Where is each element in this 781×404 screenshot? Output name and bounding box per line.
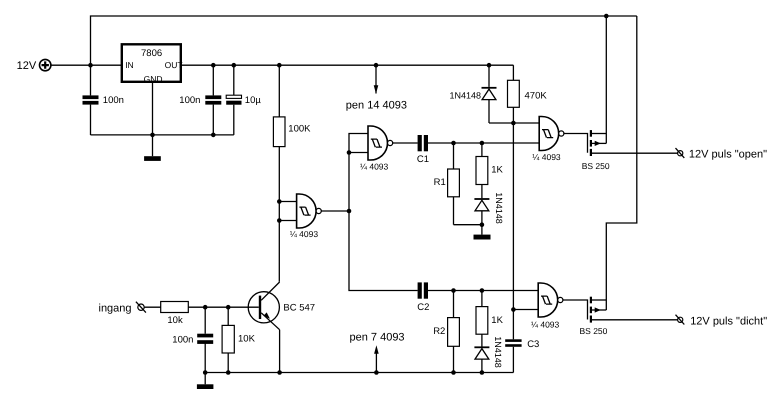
transistor Q1 BC 547 [248,282,315,330]
junction gate1 inputs tie [347,150,352,155]
svg-text:100K: 100K [288,124,311,135]
svg-text:¼ 4093: ¼ 4093 [531,320,560,330]
wire C2 to gate4 top input [428,290,538,292]
junction 6V rail / pen 14 arrow [374,63,379,68]
wire emitter to ground rail [279,330,281,373]
junction gate2 input upper [277,199,282,204]
op-amp gate U1b oscillator NAND 1/4 4093 [360,126,393,172]
svg-text:pen 7 4093: pen 7 4093 [350,332,405,344]
svg-text:12V puls "open": 12V puls "open" [689,148,767,160]
transistor M1 BS 250 [582,130,610,171]
ground under diode [474,235,491,240]
junction 12V input / top rail [88,63,93,68]
svg-text:C1: C1 [417,154,429,165]
resistor R1 [434,143,482,225]
svg-text:100n: 100n [103,95,124,106]
wire 100K to gate inputs and collector [278,147,280,282]
diode 1N4148 under 1K bottom [474,336,503,372]
capacitor C2 [417,282,429,313]
junction top rail / M1 drain [604,14,609,19]
diode 1N4148 under 1K top [474,192,504,234]
capacitor C3 [505,339,539,373]
junction C1 node / R1 [451,141,456,146]
diode 1N4148 from rail [450,65,497,123]
node output terminal 12V puls open [676,148,768,160]
svg-text:10µ: 10µ [245,95,262,106]
junction C1 node / 1K [480,141,485,146]
svg-text:10k: 10k [167,315,183,326]
wire gate2 input stubs [279,202,296,221]
junction 6V rail / diode 1N4148 [487,63,492,68]
svg-text:pen 14 4093: pen 14 4093 [346,99,407,111]
wire gate4 output to M2 gate [563,300,588,320]
capacitor 10u electrolytic [226,65,261,135]
wire M2 source to dicht terminal [592,319,678,321]
wire terminal to 10k [144,306,160,308]
resistor R2 [433,291,459,373]
resistor 100K [273,65,311,146]
wire C1 to gate3 input [428,142,539,144]
svg-text:1N4148: 1N4148 [494,192,504,224]
junction R1 / diode to ground [480,222,485,227]
svg-text:100n: 100n [172,335,193,346]
capacitor C1 [417,135,429,165]
junction ground rail / diode [480,370,485,375]
junction 6V rail / 10u [232,63,237,68]
node input terminal ingang [99,302,146,315]
junction C2 node / R2 [451,288,456,293]
svg-text:¼ 4093: ¼ 4093 [532,152,561,162]
svg-text:R1: R1 [434,177,446,188]
junction gate2 output / feedback [347,209,352,214]
wire M1 drain feed [605,16,607,134]
resistor 470K [508,65,548,123]
wire 12V input to regulator IN [51,64,122,66]
svg-text:1N4148: 1N4148 [493,336,503,368]
op-amp gate U1c NAND 1/4 4093 open [532,117,564,163]
resistor 1K top [476,143,503,198]
node 12V supply terminal [17,59,51,71]
wire right rail down to M2 drain jog [606,16,637,300]
svg-text:¼ 4093: ¼ 4093 [290,229,319,239]
svg-text:1K: 1K [491,315,503,326]
node pen 14 4093 supply arrow [346,65,407,111]
wire gate1 output [393,142,418,144]
capacitor 100n input [83,65,124,135]
junction 6V rail / 100n [211,63,216,68]
junction base node / 100n [203,305,208,310]
junction ground wire / 100n [211,133,216,138]
capacitor 100n output [179,65,221,135]
ground bottom left [197,373,214,390]
svg-text:OUT: OUT [165,60,183,70]
svg-text:100n: 100n [179,95,200,106]
junction ground rail / pen 7 arrow [374,370,379,375]
svg-text:1K: 1K [491,165,503,176]
svg-text:12V: 12V [17,60,37,72]
wire ground return bottom of regulator section [91,134,234,136]
svg-text:470K: 470K [525,91,548,102]
junction timing node / gate4 input [511,307,516,312]
svg-text:IN: IN [125,60,134,70]
junction gate2 input lower [277,218,282,223]
wire timing node vertical [512,123,514,310]
wire regulator OUT 6V rail [181,64,513,66]
junction ground rail / 100n and ground [203,370,208,375]
ground under regulator [144,156,161,161]
wire gate1 input stubs and feedback [349,134,418,291]
svg-text:C2: C2 [417,302,429,313]
node pen 7 4093 ground arrow [350,332,405,373]
resistor 1K bottom [476,291,504,347]
wire gate4 bottom input [513,309,538,311]
wire timing node to C3 [512,310,514,340]
svg-text:BS 250: BS 250 [582,161,610,171]
op-amp gate U1d NAND 1/4 4093 dicht [531,283,563,330]
svg-text:1N4148: 1N4148 [450,90,482,100]
junction ground rail / emitter [277,370,282,375]
junction ground rail / 10K [226,370,231,375]
wire gate3 output to M1 gate [564,134,588,153]
wire 10k to base [188,306,258,308]
svg-text:ingang: ingang [99,302,132,314]
junction ground wire / regulator GND [150,133,155,138]
junction 470K / gate3 input node [511,121,516,126]
svg-text:10K: 10K [238,334,256,345]
node output terminal 12V puls dicht [676,315,768,328]
svg-text:C3: C3 [527,339,539,350]
junction 6V rail / 100K [277,63,282,68]
svg-text:¼ 4093: ¼ 4093 [360,162,389,172]
junction C2 node / 1K [480,288,485,293]
transistor M2 BS 250 [580,297,608,336]
svg-text:R2: R2 [433,326,445,337]
svg-text:12V puls "dicht": 12V puls "dicht" [690,315,767,327]
resistor 10K [222,307,255,372]
wire gate2 output to feedback node [321,210,349,212]
svg-text:7806: 7806 [141,48,162,59]
wire bottom ground rail [205,372,513,374]
junction ground rail / R2 [451,370,456,375]
svg-text:BS 250: BS 250 [580,326,608,336]
wire top 12V rail [91,16,637,65]
capacitor 100n input filter [172,307,213,372]
op-amp gate U1a input NAND 1/4 4093 [290,194,322,239]
wire regulator GND pin [152,82,154,156]
voltage regulator 7806 [122,44,183,84]
wire 470K diode node to gate3 top input [489,122,539,124]
junction base node / 10K [226,305,231,310]
resistor 10k input [161,302,189,326]
svg-text:BC 547: BC 547 [283,302,315,313]
wire M1 source to open terminal [592,152,678,154]
